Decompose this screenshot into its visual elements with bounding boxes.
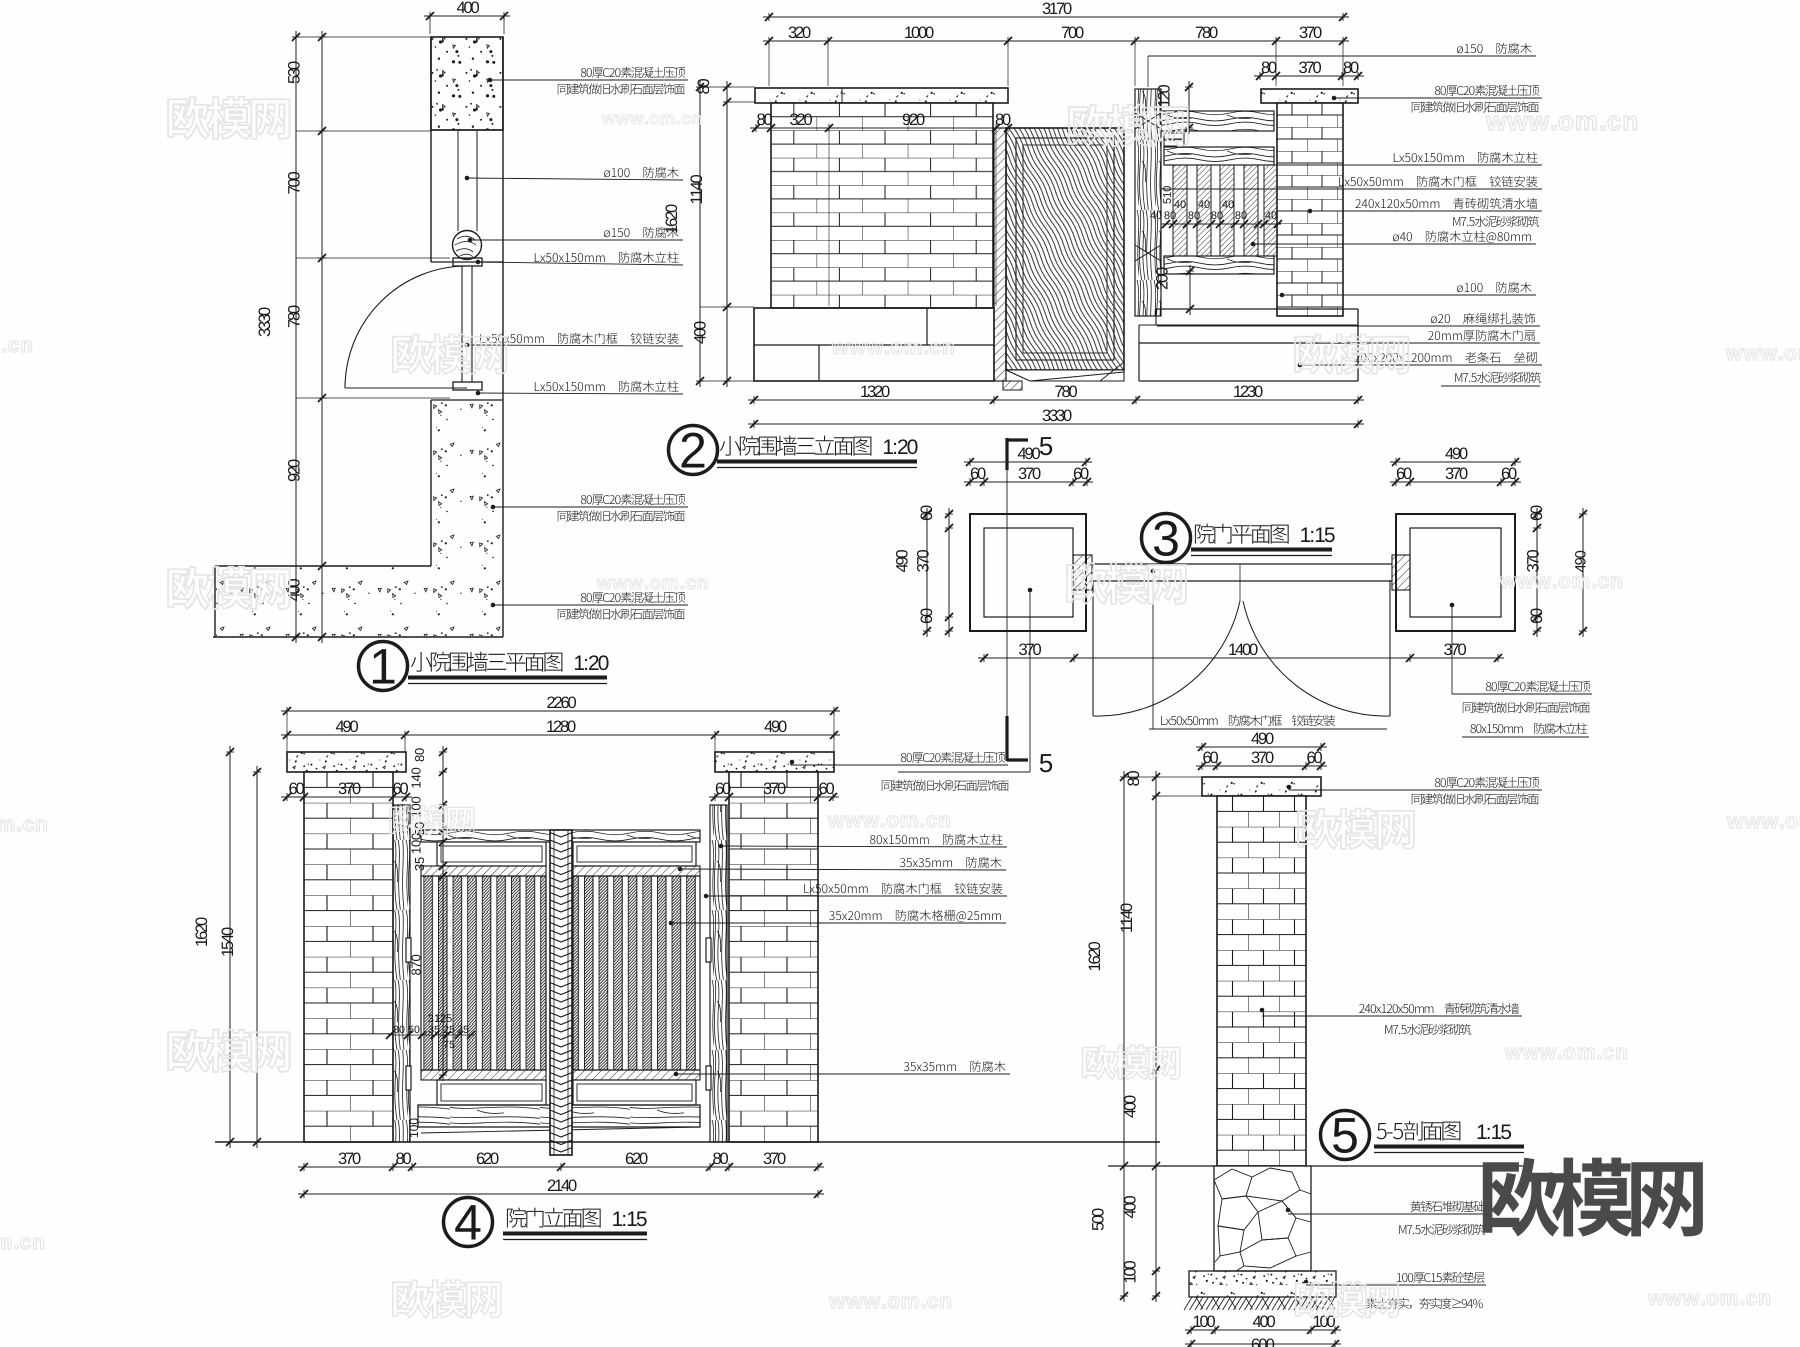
drawing 5: section: [1088, 732, 1542, 1347]
drawing 1: courtyard wall plan: [213, 1, 688, 690]
drawing 3: gate plan: [882, 437, 1592, 791]
drawing 2: courtyard wall elevation: [665, 2, 1542, 474]
site logo: [1483, 1158, 1703, 1237]
watermarks: [168, 97, 290, 139]
drawing 4: gate elevation: [195, 696, 1160, 1246]
